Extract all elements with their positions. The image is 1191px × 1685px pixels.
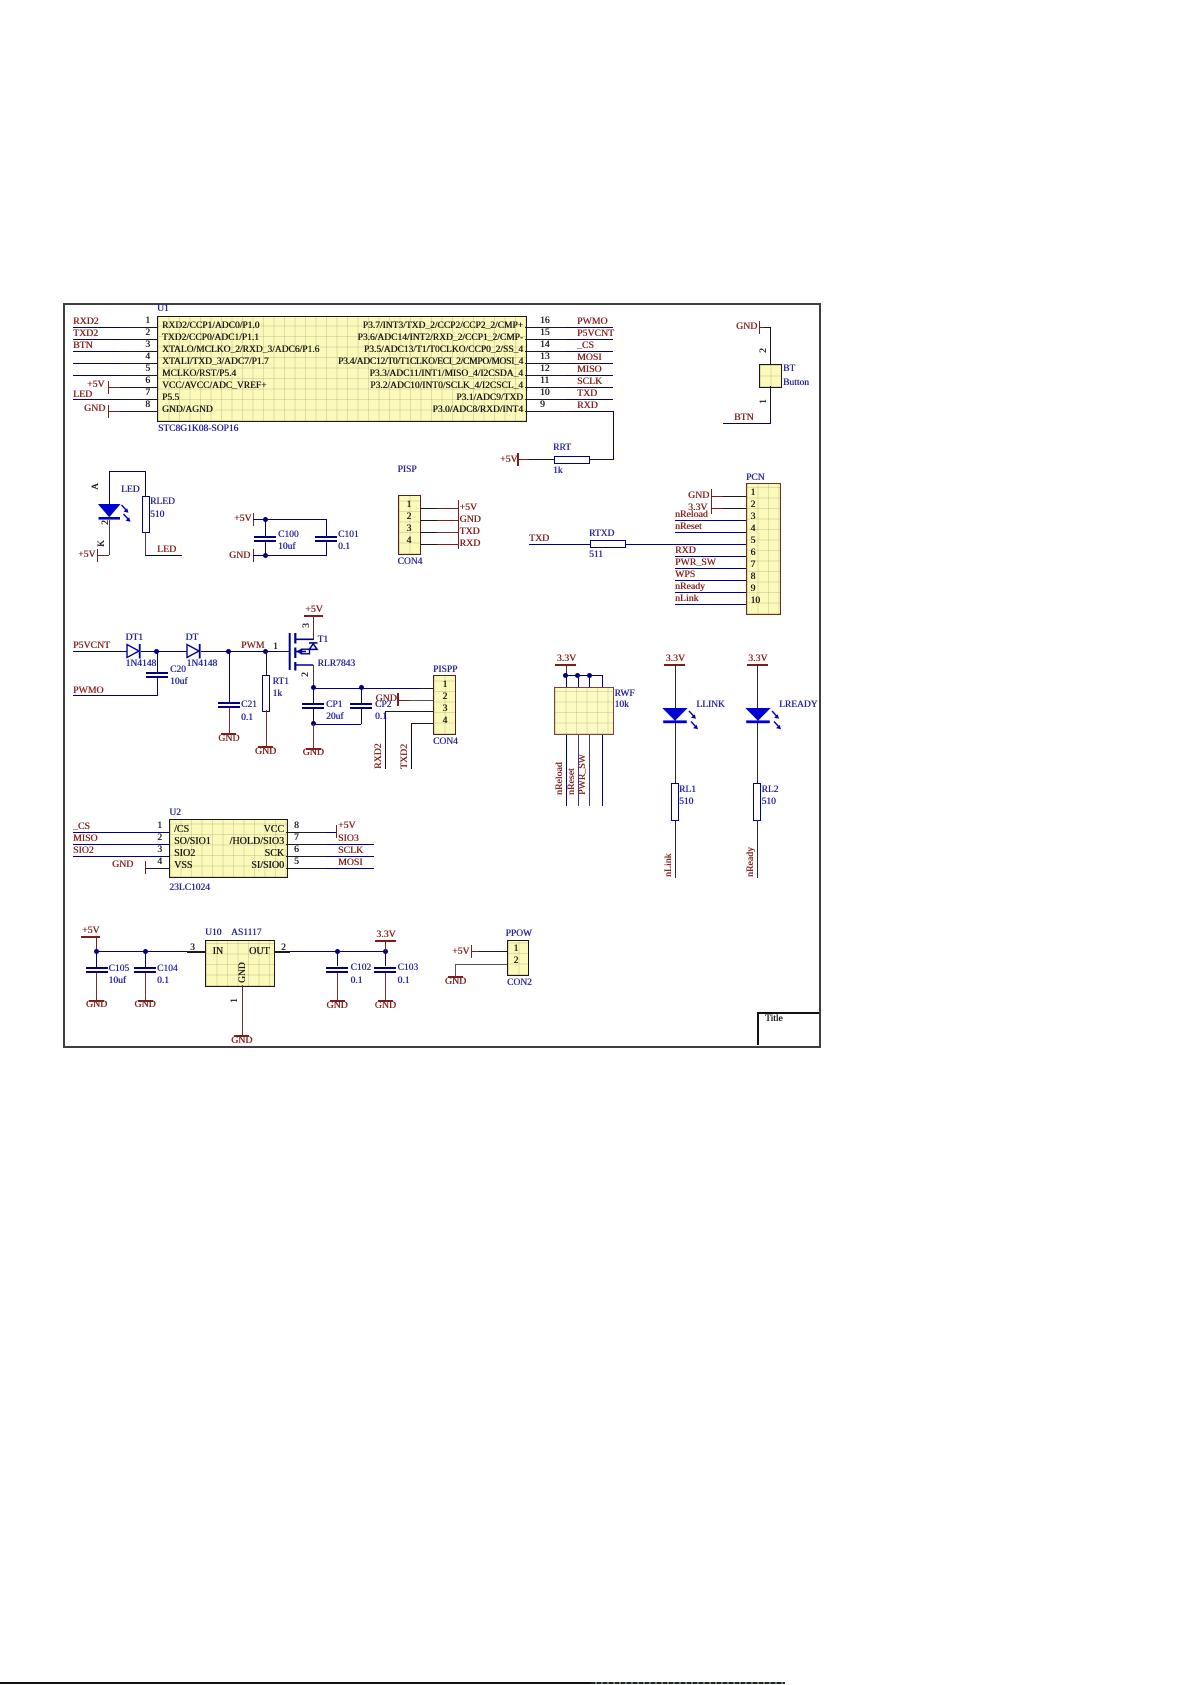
T1 part RLR7843 <box>318 659 355 669</box>
PISPP pin 3 wire <box>385 711 433 712</box>
net label MISO <box>73 834 98 844</box>
power GND below C103 <box>378 1000 393 1002</box>
wire TXD <box>566 399 613 400</box>
U1 pin 16 name <box>363 321 523 331</box>
PISPP pin 1 stub <box>420 688 433 689</box>
capacitor C20 <box>157 651 158 672</box>
PPOW pin 1 number <box>514 944 519 954</box>
connector PCN body <box>746 483 781 615</box>
net label LED <box>73 390 92 400</box>
net label TXD2 rotated <box>400 744 410 769</box>
junction <box>226 649 231 654</box>
wire nReady to PCN pin 9 <box>675 592 746 593</box>
net label P5VCNT <box>73 641 110 651</box>
PPOW pin 2 wire <box>455 964 507 965</box>
capacitor C100 <box>265 519 266 536</box>
wire U2 pin8 to +5V <box>326 832 336 833</box>
LREADY designator <box>779 700 818 710</box>
capacitor C103 <box>385 951 386 966</box>
net label RXD <box>675 546 696 556</box>
power 3.3V at RWF <box>557 654 576 664</box>
PISP pin 4 number <box>407 536 412 546</box>
net label BTN <box>73 341 93 351</box>
wire RLED top <box>145 471 146 496</box>
RRT designator <box>553 443 571 453</box>
U2 pin 2 name <box>174 837 211 847</box>
power GND below RT1 <box>258 746 273 748</box>
U10 part AS1117 <box>231 928 261 938</box>
junction <box>263 649 268 654</box>
stub U2 pin2 wire <box>73 844 120 845</box>
wire RXD <box>566 411 614 412</box>
power GND below C104 <box>138 1000 153 1002</box>
LED pin A label <box>91 483 101 490</box>
wire U1 pin 4 <box>73 363 120 364</box>
PISP designator <box>398 465 417 475</box>
U1 part number STC8G1K08-SOP16 <box>158 424 238 434</box>
capacitor C101 <box>326 519 327 536</box>
resistor RL2 body <box>753 783 761 821</box>
wire PPOW GND elbow <box>455 964 456 977</box>
resistor network RWF body <box>554 687 614 735</box>
PCN designator <box>746 473 764 483</box>
page bottom rule <box>0 1682 591 1684</box>
wire BTN <box>73 351 120 352</box>
wire TXD2 vertical <box>411 723 412 769</box>
wire CP1 to GND <box>313 724 314 748</box>
net label TXD2 <box>73 329 98 339</box>
LED pin K label <box>97 540 107 547</box>
U1 pin 3 stub and number <box>120 351 157 352</box>
RWF bottom pin wires <box>566 735 567 807</box>
regulator U10 body <box>205 940 275 987</box>
net label SCLK <box>338 846 363 856</box>
net label MISO <box>577 365 602 375</box>
U1 pin 6 name <box>162 381 266 391</box>
resistor RTXD body <box>590 540 626 548</box>
PISP part CON4 <box>398 557 423 567</box>
RLED value 510 <box>150 510 164 520</box>
BT designator <box>783 364 795 374</box>
wire +5V to RRT <box>529 459 554 460</box>
resistor RL1 body <box>671 783 679 821</box>
net label nReload <box>675 510 708 520</box>
wire 3.3V to PCN <box>712 508 724 509</box>
ic U1 body <box>157 316 527 422</box>
wire _CS <box>566 351 613 352</box>
button BT body <box>759 364 782 388</box>
net label RXD2 <box>73 317 99 327</box>
RTXD designator <box>589 529 614 539</box>
RT1 value 1k <box>273 689 283 699</box>
power bar at PISP <box>458 500 460 549</box>
U1 pin 4 name <box>162 357 269 367</box>
PCN pin 9 number <box>751 584 756 594</box>
resistor RLED body <box>142 496 150 533</box>
U1 pin 12 stub and number <box>525 375 566 376</box>
C102 designator <box>351 963 372 973</box>
power +5V at C105 <box>82 926 100 936</box>
title block label <box>765 1014 783 1024</box>
wire WPS to PCN pin 8 <box>675 580 746 581</box>
T1 designator <box>318 635 329 645</box>
U1 pin 14 stub and number <box>525 351 566 352</box>
net label nLink rotated <box>664 854 674 877</box>
wire U1 pin 5 <box>73 375 120 376</box>
U1 pin 8 name <box>162 405 213 415</box>
U1 pin 2 stub and number <box>120 339 157 340</box>
junction <box>587 673 592 678</box>
wire PWMO <box>73 695 157 696</box>
PISPP pin 4 wire <box>411 723 433 724</box>
wire SIO3 <box>326 844 374 845</box>
wire 3.3V to LREADY led <box>757 664 758 709</box>
U2 part 23LC1024 <box>169 883 210 893</box>
wire GND to BT pin 2 <box>764 327 771 328</box>
diode DT <box>186 643 204 660</box>
RWF designator <box>615 689 635 699</box>
U2 pin 7 stub and number <box>286 844 326 845</box>
RRT value 1k <box>553 466 563 476</box>
U2 pin 5 stub and number <box>286 868 326 869</box>
PCN pin 10 number <box>751 596 761 606</box>
junction <box>311 685 316 690</box>
LED cathode wire <box>109 520 110 555</box>
power GND at BT <box>736 322 757 332</box>
wire RL1 to nLink <box>675 820 676 879</box>
resistor RT1 <box>266 651 267 675</box>
U10 GND pin name rotated <box>238 963 248 984</box>
C104 value 0.1 <box>157 976 169 986</box>
U1 pin 6 stub and number <box>120 387 157 388</box>
net label TXD <box>577 389 597 399</box>
power +5V at LED <box>78 550 96 560</box>
U2 pin 6 name <box>265 849 284 859</box>
U1 pin 5 stub and number <box>120 375 157 376</box>
wire +5V to drain <box>313 615 314 640</box>
PCN pin 5 number <box>751 536 756 546</box>
RT1 designator <box>273 677 289 687</box>
power GND below C105 <box>89 1000 104 1002</box>
wire nReset to PCN pin 4 <box>675 532 746 533</box>
wire +5V to PPOW pin 1 <box>479 951 507 952</box>
label +5V <box>460 503 478 513</box>
wire GND rail <box>253 555 327 556</box>
U1 pin 11 name <box>370 381 523 391</box>
LED designator <box>121 485 139 495</box>
C101 designator <box>338 530 359 540</box>
wire U10 out rail <box>290 951 386 952</box>
wire GND to PCN <box>712 496 724 497</box>
U1 pin 13 stub and number <box>525 363 566 364</box>
RWF top pin stubs <box>566 675 567 687</box>
PPOW part CON2 <box>507 978 532 988</box>
RWF value 10k <box>615 700 629 710</box>
wire TXD2 <box>73 339 120 340</box>
power GND at C100 <box>229 551 250 561</box>
resistor RRT body <box>554 456 590 464</box>
U2 designator <box>169 808 181 818</box>
power +5V at T1 drain <box>305 605 323 615</box>
wire 3.3V to RWF rail <box>566 664 567 675</box>
power 3.3V at U10 out <box>376 930 395 940</box>
U10 pin 1 number rotated <box>230 998 240 1003</box>
PCN pin 2 number <box>751 500 756 510</box>
LED pin 2 number <box>101 520 111 525</box>
label RXD <box>460 539 481 549</box>
wire RL2 to nReady <box>757 820 758 879</box>
power +5V at RRT <box>500 455 518 465</box>
U2 pin 1 stub and number <box>120 832 169 833</box>
label TXD <box>460 527 480 537</box>
wire nLink to PCN pin 10 <box>675 604 746 605</box>
U2 pin 8 name <box>263 825 284 835</box>
net label RXD2 rotated <box>374 743 384 769</box>
PPOW designator <box>506 929 532 939</box>
C100 value 10uf <box>278 542 295 552</box>
net label PWMO <box>73 686 103 696</box>
ic U2 body <box>169 819 288 878</box>
DT designator <box>186 633 199 643</box>
power GND below C21 <box>221 733 236 735</box>
junction <box>335 949 340 954</box>
PISPP pin 3 number <box>443 704 448 714</box>
U10 designator <box>205 928 221 938</box>
junction <box>263 517 268 522</box>
power +5V at C100 <box>234 514 252 524</box>
RLED designator <box>150 497 175 507</box>
led LED symbol <box>96 502 136 526</box>
net label P5VCNT <box>577 329 614 339</box>
net label nLink <box>675 594 698 604</box>
power 3.3V at PCN pin 2 <box>688 503 707 513</box>
net label SIO3 <box>338 834 359 844</box>
junction <box>94 949 99 954</box>
wire DT1 to DT <box>141 651 187 652</box>
led LLINK symbol <box>661 706 703 734</box>
power GND below CP1 <box>306 748 321 750</box>
U1 pin 7 stub and number <box>120 399 157 400</box>
U1 pin 14 name <box>364 345 523 355</box>
U1 pin 5 name <box>162 369 236 379</box>
net label PWR_SW rotated <box>578 754 588 795</box>
net label MOSI <box>577 353 602 363</box>
U2 pin 2 stub and number <box>120 844 169 845</box>
U2 pin 3 stub and number <box>120 856 169 857</box>
wire MOSI <box>326 868 374 869</box>
U2 pin 5 name <box>251 861 284 871</box>
wire MISO <box>566 375 613 376</box>
U2 pin 3 name <box>174 849 195 859</box>
net label _CS <box>577 341 594 351</box>
wire source rail to PISPP <box>313 688 433 689</box>
transistor T1 symbol <box>288 630 320 672</box>
wire 3.3V to LLINK led <box>675 664 676 709</box>
RL1 designator <box>679 785 696 795</box>
net label RXD <box>577 401 598 411</box>
junction <box>263 553 268 558</box>
U2 pin 4 stub and number <box>145 868 169 869</box>
wire RTXD to PCN <box>625 544 746 545</box>
net label nReload rotated <box>555 762 565 795</box>
wire RT1 to GND <box>266 710 267 746</box>
DT value 1N4148 <box>187 659 218 669</box>
U1 pin 1 name <box>162 321 259 331</box>
U10 pin 2 stub and number <box>275 951 290 952</box>
net label BTN at BT <box>734 413 754 423</box>
U2 pin 8 stub and number <box>286 832 326 833</box>
PISPP designator <box>433 665 457 675</box>
wire RXD2 <box>73 327 120 328</box>
PISP pin 2 wire <box>420 520 438 521</box>
wire MOSI <box>566 363 613 364</box>
power GND at PPOW <box>448 976 463 978</box>
RL2 designator <box>762 785 779 795</box>
net label PWMO <box>577 317 607 327</box>
U2 pin 7 name <box>230 837 284 847</box>
U1 pin 9 name <box>432 405 523 415</box>
junction <box>143 949 148 954</box>
power +5V at U2 pin 8 <box>336 825 338 838</box>
T1 gate pin number 1 <box>273 642 278 652</box>
stub U2 pin3 wire <box>73 856 120 857</box>
power GND at U2 pin 4 <box>112 860 133 870</box>
U1 pin 10 name <box>456 393 523 403</box>
net label nReady <box>675 582 705 592</box>
net label nReset <box>675 522 702 532</box>
U1 pin 15 name <box>358 333 524 343</box>
U10 IN pin name <box>213 947 224 957</box>
wire +5V rail to U10 <box>96 951 187 952</box>
DT1 designator <box>126 633 143 643</box>
diode DT1 <box>126 643 144 660</box>
net label PWM <box>241 641 264 651</box>
U1 pin 11 stub and number <box>525 387 566 388</box>
wire PWMO <box>566 327 613 328</box>
PISP pin 3 number <box>407 524 412 534</box>
T1 pin 2 number <box>301 672 311 677</box>
power +5V at PPOW <box>452 947 470 957</box>
wire +5V rail <box>253 519 327 520</box>
stub U2 pin1 wire <box>73 832 120 833</box>
wire BT pin 1 <box>770 386 771 424</box>
wire TXD <box>529 544 590 545</box>
net label nReady rotated <box>746 847 756 877</box>
net label _CS <box>73 822 90 832</box>
wire P5VCNT <box>73 651 127 652</box>
wire CP bottom rail <box>313 724 361 725</box>
C20 value 10uf <box>170 677 187 687</box>
wire LED <box>73 399 120 400</box>
U1 pin 4 stub and number <box>120 363 157 364</box>
wire to T1 gate <box>277 651 290 652</box>
PCN pin 7 number <box>751 560 756 570</box>
C105 designator <box>109 964 130 974</box>
capacitor C21 <box>229 651 230 702</box>
power 3.3V at LLINK <box>666 654 685 664</box>
connector PPOW body <box>507 940 529 976</box>
LLINK designator <box>696 700 725 710</box>
PCN pin 6 number <box>751 548 756 558</box>
PISPP pin 1 number <box>443 680 448 690</box>
PISPP pin 4 number <box>443 716 448 726</box>
U1 pin 7 name <box>162 393 179 403</box>
wire +5V down <box>96 936 97 951</box>
CP2 value 0.1 <box>375 712 387 722</box>
U2 pin 1 name <box>174 825 189 835</box>
PISP pin 2 number <box>407 512 412 522</box>
wire SCLK <box>326 856 374 857</box>
PCN pin 8 number <box>751 572 756 582</box>
U1 pin 10 stub and number <box>525 399 566 400</box>
junction <box>359 685 364 690</box>
net label LED right <box>157 545 176 555</box>
U10 pin 1 wire <box>242 985 243 1035</box>
PISPP part CON4 <box>433 737 458 747</box>
junction <box>311 721 316 726</box>
U1 pin 9 stub and number <box>525 411 566 412</box>
U1 pin 1 stub and number <box>120 327 157 328</box>
T1 pin 3 number <box>302 624 312 629</box>
wire RXD to PCN pin 6 <box>675 556 746 557</box>
wire GND to PISPP <box>399 700 411 701</box>
junction <box>154 649 159 654</box>
U1 pin 12 name <box>369 369 523 379</box>
label GND <box>460 515 481 525</box>
PCN pin 4 number <box>751 524 756 534</box>
PISP pin 4 wire <box>420 544 438 545</box>
capacitor C102 <box>337 951 338 966</box>
junction <box>383 949 388 954</box>
C103 value 0.1 <box>398 976 410 986</box>
RWF top rail <box>565 675 603 676</box>
capacitor C105 <box>96 951 97 967</box>
U2 pin 6 stub and number <box>286 856 326 857</box>
LED anode wire <box>109 471 110 505</box>
RL2 value 510 <box>762 797 776 807</box>
net label SCLK <box>577 377 602 387</box>
wire DT to T1 gate <box>201 651 277 652</box>
U1 pin 16 stub and number <box>525 327 566 328</box>
wire BTN to BT <box>723 423 771 424</box>
junction <box>563 673 568 678</box>
RTXD value 511 <box>589 550 603 560</box>
PCN pin 3 number <box>751 512 756 522</box>
wire SCLK <box>566 387 613 388</box>
wire nReload to PCN pin 3 <box>675 520 746 521</box>
U1 pin 2 name <box>162 333 259 343</box>
BT pin 1 number <box>759 399 769 404</box>
net label TXD <box>529 534 549 544</box>
U10 OUT pin name <box>249 947 270 957</box>
wire RRT to RXD net <box>590 459 615 460</box>
C105 value 10uf <box>109 976 126 986</box>
PCN pin 1 number <box>751 488 756 498</box>
U1 designator <box>157 304 169 314</box>
wire T1 source down <box>313 665 314 688</box>
PPOW pin 2 number <box>514 956 519 966</box>
wire LLINK led to RL1 <box>675 723 676 783</box>
net label WPS <box>675 570 695 580</box>
wire LREADY led to RL2 <box>757 723 758 783</box>
U1 pin 8 stub and number <box>120 411 157 412</box>
wire RXD vertical to RRT <box>613 411 614 459</box>
C104 designator <box>157 964 178 974</box>
U2 pin 4 name <box>174 861 192 871</box>
led LREADY symbol <box>744 706 786 734</box>
wire 3.3V down <box>385 940 386 951</box>
C100 designator <box>278 530 299 540</box>
